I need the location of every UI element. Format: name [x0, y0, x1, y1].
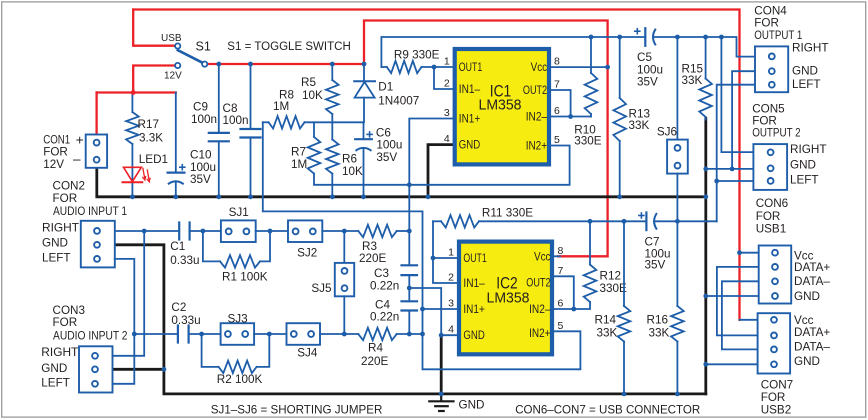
svg-text:DATA+: DATA+ — [794, 326, 830, 339]
node R12 top — [588, 219, 593, 224]
svg-text:R2 100K: R2 100K — [217, 373, 263, 386]
svg-text:0.33u: 0.33u — [171, 314, 200, 327]
wire output rail 1 right segment to CON4 RIGHT — [653, 37, 755, 57]
label CON7 pins — [794, 314, 830, 368]
svg-text:35V: 35V — [645, 259, 666, 272]
label R6 10K — [342, 153, 363, 179]
label CON7 FOR USB2 — [761, 379, 793, 417]
node SJ6 bottom R16 top — [675, 219, 680, 224]
svg-text:7: 7 — [554, 79, 560, 91]
svg-text:SJ6: SJ6 — [657, 126, 677, 139]
connector CON7 — [758, 313, 791, 373]
svg-text:4: 4 — [448, 324, 454, 336]
node R17 LED on ground bus — [130, 194, 135, 199]
capacitor C3 — [402, 265, 418, 301]
svg-text:OUT2: OUT2 — [526, 278, 550, 290]
resistor R10 — [585, 37, 598, 117]
label R13 33K — [629, 108, 650, 133]
svg-text:R9 330E: R9 330E — [394, 49, 440, 62]
wire IC1 pin1 to pin2 feedback — [434, 67, 453, 89]
svg-text:LED1: LED1 — [139, 153, 168, 166]
node IC2 pin4 junction — [439, 333, 444, 338]
connector CON1 — [86, 135, 107, 168]
resistor R14 — [618, 221, 631, 394]
svg-text:C1: C1 — [170, 240, 185, 253]
svg-text:6: 6 — [554, 105, 560, 117]
svg-text:S1: S1 — [196, 40, 211, 54]
svg-text:1M: 1M — [291, 158, 307, 171]
label 12V — [164, 71, 182, 82]
op-amp IC1 LM358 — [455, 49, 549, 164]
label CON5 pins — [790, 143, 827, 186]
node CON4 GND junction — [730, 167, 735, 172]
svg-text:1: 1 — [444, 56, 450, 68]
svg-text:IN1+: IN1+ — [459, 114, 481, 126]
resistor R1 bypass loop — [203, 231, 270, 268]
svg-text:6: 6 — [558, 298, 564, 310]
svg-text:GND: GND — [792, 65, 818, 78]
svg-text:FOR: FOR — [53, 192, 78, 205]
wire red S1 12V contact to node — [133, 66, 175, 93]
label R15 33K — [682, 63, 704, 88]
svg-text:35V: 35V — [190, 173, 211, 186]
wire CON6 Vcc — [740, 252, 759, 254]
wire SJ1 to SJ2 — [256, 230, 288, 232]
wire CON3 RIGHT to line1 — [113, 231, 145, 356]
resistor R9 — [381, 61, 452, 73]
label USB — [161, 33, 182, 44]
capacitor C1 — [179, 223, 189, 240]
wire red V+ top rail to CON7 Vcc — [133, 10, 739, 320]
capacitor C2 — [178, 326, 189, 343]
svg-text:SJ2: SJ2 — [297, 247, 317, 260]
svg-text:LEFT: LEFT — [792, 78, 821, 91]
jumper SJ6 — [667, 37, 688, 221]
svg-text:SJ5: SJ5 — [311, 282, 332, 295]
node C3 C4 midpoint — [407, 286, 412, 291]
svg-text:RIGHT: RIGHT — [792, 42, 829, 55]
svg-text:CON2: CON2 — [53, 180, 85, 193]
wire C1 to SJ1 — [190, 230, 221, 232]
label CON2 pins — [42, 221, 79, 264]
svg-text:IN1+: IN1+ — [463, 304, 485, 316]
svg-text:C5: C5 — [637, 51, 652, 64]
svg-text:D1: D1 — [378, 81, 393, 94]
label R1 100K — [222, 271, 268, 284]
resistor R7 — [308, 122, 321, 173]
label LED1 — [139, 153, 168, 166]
connector CON6 — [759, 246, 792, 304]
svg-text:2: 2 — [444, 78, 450, 90]
wire black IC2 GND to bottom bus — [440, 335, 443, 394]
svg-text:7: 7 — [558, 265, 564, 277]
node C8 on ground bus — [248, 194, 253, 199]
svg-text:GND: GND — [790, 158, 816, 171]
node line2 SJ4 out — [342, 332, 347, 337]
node line2 SJ3 in — [199, 332, 204, 337]
wire black IC1 GND pin 4 to ground bus — [428, 145, 453, 197]
ground — [428, 394, 454, 411]
resistor R16 — [671, 221, 684, 394]
label C2 0.33u — [171, 301, 200, 327]
label CON4 pins — [792, 42, 829, 91]
svg-text:FOR: FOR — [756, 210, 781, 223]
capacitor C9 — [209, 64, 229, 197]
label R11 330E — [482, 207, 533, 220]
svg-text:Vcc: Vcc — [531, 62, 548, 74]
node IC2 pin6 junction — [571, 307, 576, 312]
resistor R17 — [126, 93, 139, 197]
label R17 3.3K — [138, 118, 164, 145]
wire CON6 DATA+ to CON7 DATA+ — [717, 267, 759, 336]
svg-text:33K: 33K — [629, 119, 650, 132]
resistor R3 — [358, 225, 409, 237]
wire output rail 2 right segment — [654, 220, 717, 222]
label R12 330E — [600, 270, 628, 296]
svg-text:RIGHT: RIGHT — [790, 143, 827, 156]
resistor R12 — [574, 221, 597, 309]
svg-text:SJ3: SJ3 — [228, 313, 248, 326]
label S1 — [196, 40, 211, 54]
wire black ground trunk right side — [704, 119, 707, 394]
jumper SJ1 — [221, 220, 256, 242]
node line1 SJ1 out — [268, 229, 273, 234]
svg-text:0.22n: 0.22n — [370, 280, 399, 293]
capacitor C10 — [168, 93, 186, 197]
label C3 0.22n — [370, 267, 399, 293]
label R10 330E — [574, 124, 602, 148]
note S1 toggle switch — [227, 39, 350, 53]
svg-text:SJ1: SJ1 — [229, 206, 249, 219]
wire black CON3 GND — [113, 368, 164, 371]
node C9 on ground bus — [216, 194, 221, 199]
resistor R15 — [699, 37, 712, 120]
svg-text:GND: GND — [459, 399, 485, 412]
svg-text:S1 = TOGGLE SWITCH: S1 = TOGGLE SWITCH — [227, 39, 350, 53]
wire IC2 pin1 stub — [433, 257, 459, 259]
resistor R8 — [263, 116, 305, 128]
wire CON7 Vcc stub — [740, 319, 758, 321]
svg-text:2: 2 — [448, 272, 454, 284]
label D1 1N4007 — [378, 81, 419, 108]
svg-text:RIGHT: RIGHT — [42, 221, 79, 234]
node line1 SJ2 out — [342, 229, 347, 234]
svg-text:DATA–: DATA– — [794, 341, 830, 354]
svg-text:33K: 33K — [649, 327, 670, 340]
note shorting jumpers — [211, 404, 383, 417]
label R4 220E — [361, 342, 389, 369]
label CON3 pins — [41, 346, 78, 390]
wire red node to CON1 + — [95, 93, 97, 135]
wire output rail 1 left segment — [381, 37, 645, 67]
svg-text:Vcc: Vcc — [534, 251, 551, 263]
svg-text:SJ1–SJ6 = SHORTING JUMPER: SJ1–SJ6 = SHORTING JUMPER — [211, 404, 383, 417]
label C1 0.33u — [170, 240, 199, 267]
svg-text:10K: 10K — [302, 89, 323, 102]
svg-text:–: – — [73, 152, 81, 167]
wire IC2 pin4 stub — [441, 334, 459, 336]
node 12V red junction — [131, 90, 136, 95]
node C10 on ground bus — [173, 194, 178, 199]
svg-text:100n: 100n — [223, 114, 249, 127]
svg-text:C2: C2 — [171, 301, 186, 314]
label IC1 LM358 — [479, 97, 522, 114]
pin numbers IC2 left — [448, 247, 454, 336]
svg-text:8: 8 — [554, 56, 560, 68]
svg-text:OUTPUT 1: OUTPUT 1 — [754, 29, 802, 42]
svg-text:R11 330E: R11 330E — [482, 207, 533, 220]
svg-text:IN2+: IN2+ — [526, 141, 548, 153]
svg-text:1M: 1M — [273, 100, 289, 113]
wire CON2 RIGHT to C1 — [115, 230, 179, 232]
wire red 12V node horizontal — [97, 91, 176, 93]
svg-text:LEFT: LEFT — [41, 377, 70, 390]
label C6 100u 35V — [376, 127, 403, 165]
svg-text:LEFT: LEFT — [790, 173, 819, 186]
svg-text:LEFT: LEFT — [42, 252, 71, 265]
svg-text:10K: 10K — [342, 165, 363, 178]
svg-text:0.22n: 0.22n — [370, 311, 399, 324]
label CON6 FOR USB1 — [756, 197, 788, 236]
label C5 100u 35V — [637, 51, 663, 89]
label SJ3 — [228, 313, 248, 326]
wire IC2 pin3 — [423, 308, 460, 310]
wire IC2 pin7 loop — [554, 276, 574, 309]
label SJ2 — [297, 247, 317, 260]
svg-text:OUT1: OUT1 — [463, 253, 486, 265]
node R16 on bottom bus — [675, 392, 680, 397]
node IC2 GND on bottom bus — [439, 392, 444, 397]
svg-text:35V: 35V — [376, 151, 397, 164]
label C4 0.22n — [370, 299, 399, 324]
node SJ6 top — [675, 35, 680, 40]
node C6 on ground bus — [361, 194, 366, 199]
label IC2 pin names right — [526, 251, 551, 340]
wire R7 bias line to IC1 pin 5 — [314, 146, 570, 185]
label R5 10K — [301, 76, 323, 102]
node line2 C4 — [407, 332, 412, 337]
svg-text:C10: C10 — [190, 149, 212, 162]
svg-text:+: + — [76, 133, 84, 148]
label GND symbol — [459, 399, 485, 412]
label IC1 pin names left — [459, 62, 482, 152]
led LED1 — [122, 167, 151, 182]
svg-text:CON7: CON7 — [761, 379, 793, 392]
label C9 100n — [191, 101, 217, 127]
switch S1 common contact — [202, 62, 207, 67]
resistor R4 — [358, 328, 422, 340]
wire SJ4 to R4 — [320, 333, 358, 335]
label SJ6 — [657, 126, 677, 139]
svg-text:IN1–: IN1– — [463, 278, 485, 290]
svg-text:DATA+: DATA+ — [794, 261, 830, 274]
svg-text:3.3K: 3.3K — [139, 132, 163, 145]
node CON3 GND junction — [162, 367, 167, 372]
svg-text:GND: GND — [794, 290, 820, 303]
label R16 33K — [647, 314, 670, 340]
svg-text:FOR: FOR — [761, 391, 786, 404]
switch S1 lever — [178, 50, 202, 62]
wire SJ3 to SJ4 — [254, 333, 286, 335]
node CON6 Vcc on red rail — [737, 250, 742, 255]
label CON2 FOR AUDIO INPUT 1 — [53, 180, 128, 219]
svg-text:FOR: FOR — [53, 316, 78, 329]
svg-text:FOR: FOR — [752, 115, 777, 128]
capacitor C5 — [634, 28, 656, 46]
wire CON4 LEFT to rail 2 — [717, 85, 755, 222]
svg-text:CON5: CON5 — [752, 102, 785, 115]
svg-text:R16: R16 — [647, 314, 668, 327]
svg-text:12V: 12V — [164, 71, 182, 82]
svg-text:IN2+: IN2+ — [529, 328, 551, 340]
label IC2 pin names left — [463, 253, 486, 342]
switch S1 USB contact — [175, 43, 180, 48]
resistor R2 bypass loop — [202, 334, 270, 373]
label SJ5 — [311, 282, 332, 295]
node bias tap on V1 — [407, 182, 412, 187]
capacitor C8 — [241, 64, 261, 197]
capacitor C6 — [355, 122, 373, 197]
label SJ4 — [297, 347, 318, 360]
svg-text:GND: GND — [463, 330, 484, 342]
wire CON5 RIGHT — [721, 37, 753, 152]
node line1 C1 out — [142, 229, 147, 234]
node R5 on V+ bus — [330, 62, 335, 67]
capacitor C4 — [402, 301, 418, 334]
op-amp IC2 LM358 — [459, 242, 552, 355]
svg-text:C3: C3 — [374, 267, 389, 280]
label R9 330E — [394, 49, 440, 62]
svg-text:LM358: LM358 — [479, 97, 522, 114]
svg-text:R14: R14 — [595, 314, 617, 327]
label SJ1 — [229, 206, 249, 219]
svg-text:CON6: CON6 — [756, 197, 788, 210]
svg-text:GND: GND — [794, 355, 820, 368]
svg-text:12V: 12V — [43, 158, 64, 171]
node CON7 GND on trunk — [703, 362, 708, 367]
svg-text:5: 5 — [554, 134, 560, 146]
connector CON5 — [753, 144, 787, 190]
diode D1 — [354, 64, 375, 122]
svg-text:AUDIO INPUT 2: AUDIO INPUT 2 — [53, 330, 128, 343]
label R8 1M — [273, 89, 294, 114]
node IC2 pin3 tap — [420, 307, 425, 312]
wire CON3 LEFT to line2 — [113, 334, 135, 384]
node ground bus tee — [703, 194, 708, 199]
wire IC1 pin7 loop — [551, 90, 571, 117]
label CON3 FOR AUDIO INPUT 2 — [53, 304, 128, 343]
svg-text:100u: 100u — [376, 139, 402, 152]
wire R11 to IC2 pin1 pin2 — [433, 221, 459, 283]
node C9 on V+ bus — [216, 62, 221, 67]
wire CON5 LEFT — [717, 180, 754, 182]
label C8 100n — [223, 102, 249, 127]
wire black lower ground bus from CON2 GND — [115, 245, 706, 394]
svg-text:FOR: FOR — [754, 17, 779, 30]
connector CON3 — [79, 346, 113, 392]
svg-text:SJ4: SJ4 — [297, 347, 318, 360]
svg-text:C9: C9 — [193, 101, 208, 114]
svg-text:IN1–: IN1– — [459, 84, 481, 96]
svg-text:USB1: USB1 — [756, 223, 787, 236]
node R14 on bottom bus — [622, 392, 627, 397]
svg-text:R4: R4 — [368, 342, 383, 355]
svg-text:33K: 33K — [682, 74, 703, 87]
wire line2 start to C2 — [134, 333, 178, 335]
label R7 1M — [291, 146, 307, 172]
node line1 at V1 — [407, 229, 412, 234]
svg-text:220E: 220E — [359, 252, 387, 265]
wire C2 to SJ3 — [189, 333, 221, 335]
svg-text:R7: R7 — [291, 146, 306, 159]
switch S1 12V contact — [175, 63, 180, 68]
svg-text:330E: 330E — [600, 282, 628, 295]
wire red switched V+ bus — [207, 63, 364, 65]
wire SJ2 to R3 — [322, 230, 358, 232]
label C10 100u 35V — [190, 149, 216, 187]
capacitor C7 — [638, 212, 657, 230]
svg-text:FOR: FOR — [43, 145, 68, 158]
note usb connectors — [515, 404, 700, 417]
wire output rail 2 left segment — [479, 220, 646, 222]
svg-text:R6: R6 — [342, 153, 357, 166]
svg-text:3: 3 — [444, 107, 450, 119]
label C7 100u 35V — [645, 236, 671, 272]
connector CON2 — [81, 221, 115, 268]
svg-text:220E: 220E — [361, 355, 389, 368]
connector CON4 — [755, 46, 788, 92]
svg-text:USB2: USB2 — [761, 404, 792, 417]
svg-text:R1 100K: R1 100K — [222, 271, 268, 284]
node R15 top — [703, 35, 708, 40]
pin numbers IC2 right — [558, 245, 564, 332]
resistor R6 — [326, 122, 339, 197]
svg-text:OUT1: OUT1 — [459, 62, 482, 74]
jumper SJ5 — [335, 231, 354, 334]
node line1 SJ1 in — [201, 229, 206, 234]
svg-text:LM358: LM358 — [487, 290, 530, 307]
node IC1 Vcc on red rail — [605, 65, 610, 70]
node CON5 LEFT junction — [714, 179, 719, 184]
node line2 V2 — [420, 332, 425, 337]
node line2 SJ3 out — [267, 332, 272, 337]
svg-text:100n: 100n — [191, 113, 217, 126]
wire red inner V+ rail to IC Vcc pins — [364, 21, 608, 257]
svg-text:5: 5 — [558, 320, 564, 332]
svg-text:R12: R12 — [600, 270, 621, 283]
wire black upper ground bus from CON1 — [97, 168, 706, 197]
node R13 on ground bus — [617, 194, 622, 199]
node CON5 RIGHT tap — [719, 35, 724, 40]
node line2 start — [132, 332, 137, 337]
jumper SJ3 — [221, 323, 255, 345]
wire R8 bias line to IC2 inputs — [263, 122, 581, 369]
resistor R11 — [433, 215, 479, 227]
wire filter caps to IC2 GND — [409, 288, 441, 335]
wire red top rail to S1 USB contact — [133, 10, 175, 46]
svg-text:3: 3 — [448, 298, 454, 310]
label IC2 — [496, 275, 518, 293]
wire IC1 pin3 input chain V1 — [409, 119, 452, 266]
svg-text:33K: 33K — [597, 327, 618, 340]
svg-text:4: 4 — [444, 133, 450, 145]
wire CON4 GND — [732, 71, 755, 169]
label R3 220E — [359, 240, 387, 265]
node R13 top — [617, 35, 622, 40]
svg-text:330E: 330E — [574, 135, 602, 148]
svg-text:1: 1 — [448, 247, 454, 259]
wire IC2 pin8 stub — [554, 255, 560, 257]
